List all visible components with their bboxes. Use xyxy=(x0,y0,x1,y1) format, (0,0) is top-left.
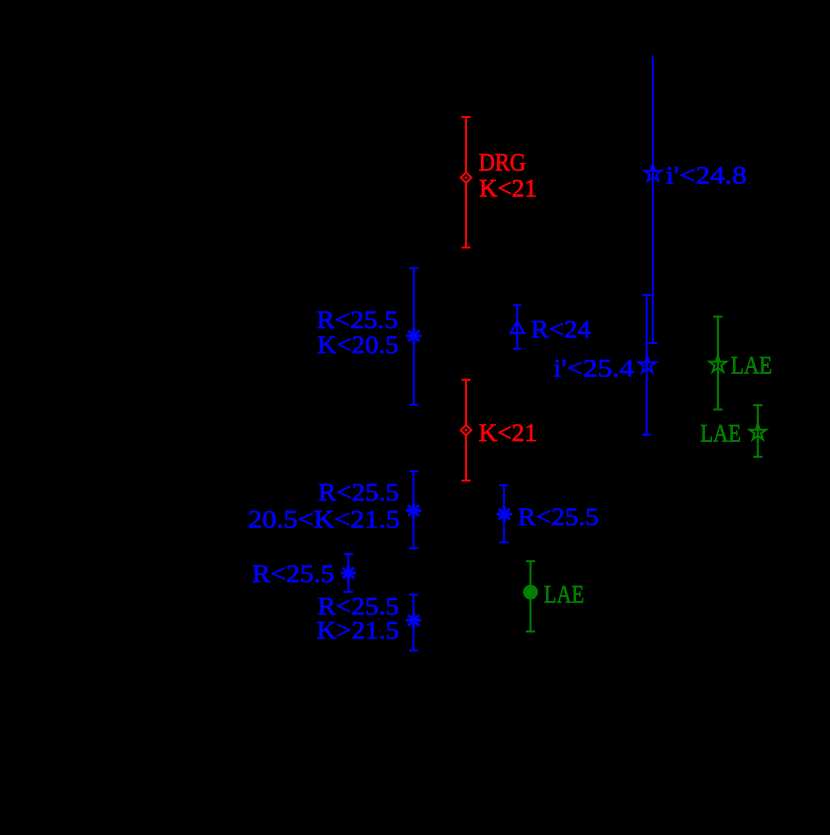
green errorbar K (LAE star upper) xyxy=(713,317,722,410)
green errorbar M (LAE circle) xyxy=(526,561,535,631)
green filled circle marker M xyxy=(523,585,538,600)
blue errorbar I (R<25.5 K>21.5) xyxy=(409,595,418,651)
svg-text:i'<25.4: i'<25.4 xyxy=(553,355,634,382)
red open diamond marker B xyxy=(461,425,472,436)
blue errorbar H (R<25.5 short) xyxy=(344,554,353,592)
blue errorbar C (i'<24.8), no top cap xyxy=(648,56,657,343)
svg-text:i'<24.8: i'<24.8 xyxy=(666,163,747,190)
green open star marker L xyxy=(750,424,767,440)
red open diamond marker A xyxy=(461,172,472,183)
svg-text:R<25.5: R<25.5 xyxy=(317,307,398,334)
svg-text:R<24: R<24 xyxy=(531,316,592,343)
svg-text:R<25.5: R<25.5 xyxy=(318,479,399,506)
green open star marker K xyxy=(709,355,726,371)
svg-text:LAE: LAE xyxy=(700,421,741,448)
svg-text:R<25.5: R<25.5 xyxy=(252,561,335,588)
blue errorbar J (R<25.5 right) xyxy=(499,485,508,542)
blue asterisk marker I xyxy=(406,613,421,628)
blue asterisk marker G xyxy=(406,503,421,518)
blue errorbar D (i'<25.4) xyxy=(642,295,651,435)
green errorbar L (LAE star lower) xyxy=(753,405,762,457)
blue open star marker D xyxy=(639,356,656,372)
svg-text:R<25.5: R<25.5 xyxy=(518,504,599,531)
blue open star marker C xyxy=(644,165,661,181)
svg-text:K<21: K<21 xyxy=(479,420,537,447)
blue asterisk marker H xyxy=(341,565,356,580)
blue errorbar E (R<25.5 K<20.5) xyxy=(409,268,418,405)
blue asterisk marker E xyxy=(406,328,421,343)
red errorbar B (K<21) xyxy=(461,380,470,481)
svg-text:DRG: DRG xyxy=(479,150,526,177)
svg-text:LAE: LAE xyxy=(544,581,584,608)
blue errorbar F (R<24) xyxy=(513,305,521,349)
svg-text:20.5<K<21.5: 20.5<K<21.5 xyxy=(248,507,400,534)
blue errorbar G (R<25.5 20.5<K<21.5) xyxy=(409,471,418,548)
blue open triangle marker F xyxy=(511,321,524,333)
svg-text:LAE: LAE xyxy=(731,353,772,380)
red errorbar A (DRG K<21) xyxy=(461,117,470,248)
svg-text:K<20.5: K<20.5 xyxy=(317,332,398,359)
blue asterisk marker J xyxy=(497,507,512,522)
svg-text:K<21: K<21 xyxy=(479,175,537,202)
svg-text:K>21.5: K>21.5 xyxy=(317,618,400,645)
